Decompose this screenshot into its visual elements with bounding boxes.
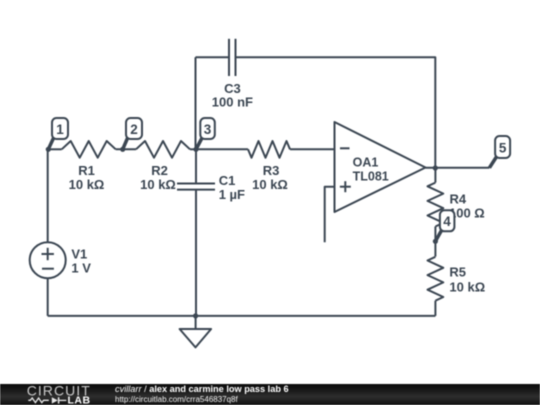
svg-text:OA1: OA1	[353, 155, 379, 169]
svg-text:LAB: LAB	[68, 395, 91, 405]
wire: node3 to R3	[196, 148, 248, 150]
capacitor C1	[177, 183, 215, 185]
wire: top-left to C3	[196, 56, 230, 58]
svg-text:10 kΩ: 10 kΩ	[69, 177, 105, 192]
junction node 4	[433, 239, 438, 244]
svg-text:R5: R5	[449, 265, 466, 280]
node flag 3	[196, 118, 215, 149]
svg-text:5: 5	[499, 140, 507, 155]
label C3	[212, 81, 253, 110]
svg-text:2: 2	[130, 122, 138, 137]
resistor R3	[248, 141, 290, 158]
resistor R1	[62, 141, 116, 158]
wire: node1 down to V1 top	[47, 149, 49, 242]
ground	[195, 316, 197, 329]
wire: V1 bottom to bottom rail	[47, 278, 49, 316]
footer bar	[0, 384, 540, 405]
svg-text:http://circuitlab.com/crra5468: http://circuitlab.com/crra546837q8f	[115, 395, 239, 404]
resistor R4	[428, 183, 444, 227]
resistor R5	[428, 257, 444, 301]
wire: R1 to node2	[116, 148, 136, 150]
svg-text:10 kΩ: 10 kΩ	[449, 279, 485, 294]
label R3	[252, 163, 288, 192]
label OA1 TL081	[353, 155, 389, 183]
voltage source V1	[30, 242, 66, 278]
svg-text:cvillarr / alex and carmine lo: cvillarr / alex and carmine low pass lab…	[115, 384, 289, 394]
wire: R5 to bottom rail	[434, 301, 436, 316]
svg-text:1 V: 1 V	[71, 261, 91, 276]
capacitor C3	[228, 39, 230, 76]
wire: C3 to top-right corner and down to output	[236, 57, 436, 168]
CircuitLab logo doodle: resistor zigzag	[28, 398, 49, 403]
svg-text:R2: R2	[151, 163, 168, 178]
wire: bottom rail	[48, 315, 436, 317]
label R5	[449, 265, 485, 295]
label V1	[71, 247, 91, 276]
wire: node3 up to feedback top wire	[195, 57, 197, 149]
node flag 1	[48, 118, 68, 149]
wire: op-amp non-inverting input (dangling)	[325, 187, 335, 243]
wire: C1 to bottom rail	[195, 190, 197, 316]
svg-text:V1: V1	[71, 247, 87, 262]
wire: R3 to op-amp inverting input	[290, 148, 335, 150]
junction node 2	[120, 147, 125, 152]
wire: R2 to node3	[190, 148, 196, 150]
junction output node	[433, 165, 438, 170]
svg-text:R1: R1	[78, 163, 95, 178]
svg-text:TL081: TL081	[353, 169, 389, 183]
junction ground node	[193, 313, 198, 318]
wire: R4 to node4	[434, 227, 436, 242]
svg-text:C1: C1	[219, 173, 236, 188]
svg-text:100 nF: 100 nF	[212, 94, 253, 109]
svg-text:R4: R4	[450, 192, 467, 207]
CircuitLab logo doodle: diode	[52, 397, 58, 403]
svg-text:R3: R3	[263, 163, 280, 178]
svg-text:10 kΩ: 10 kΩ	[140, 177, 176, 192]
node flag 4	[435, 210, 454, 241]
op-amp OA1	[335, 122, 426, 212]
label R4	[449, 192, 485, 221]
label R1	[69, 163, 105, 192]
svg-text:10 kΩ: 10 kΩ	[252, 177, 288, 192]
wire: node4 to R5	[434, 241, 436, 256]
svg-text:3: 3	[204, 122, 212, 137]
wire: node1 to R1	[48, 148, 61, 150]
node flag 2	[123, 118, 142, 149]
wire: node3 down to C1	[195, 149, 197, 183]
node flag 5	[489, 136, 510, 168]
svg-text:1: 1	[56, 122, 64, 137]
junction node 3	[193, 147, 198, 152]
wire: output junction down to R4	[434, 168, 436, 183]
svg-text:1 µF: 1 µF	[219, 187, 245, 202]
resistor R2	[136, 141, 190, 158]
label C1	[219, 173, 245, 202]
junction node 1	[46, 147, 51, 152]
svg-text:4: 4	[443, 214, 451, 229]
wire: op-amp output to junction and node 5	[426, 167, 490, 169]
label R2	[140, 163, 176, 192]
